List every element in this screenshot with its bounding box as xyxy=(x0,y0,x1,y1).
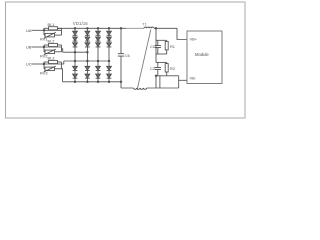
wire col4 xyxy=(108,70,110,74)
node top bus col1 xyxy=(74,27,76,29)
wire C6 rail upper xyxy=(120,28,122,53)
wire col3 xyxy=(97,35,99,37)
wire col2 to bottom bus xyxy=(86,78,88,82)
wire RV2 out xyxy=(55,51,62,53)
svg-text:VD1/16: VD1/16 xyxy=(73,21,89,26)
node bottom col2 xyxy=(86,81,88,83)
wire C varistor to bottom bus xyxy=(62,69,63,82)
transformer T1 secondary winding xyxy=(134,88,147,89)
wire C1 branch top xyxy=(157,40,159,45)
diode VD col3 upper 3 xyxy=(96,43,101,47)
diode VD col3 upper 1 xyxy=(96,31,101,35)
node top bus C6 tap xyxy=(120,27,122,29)
wire B upper branch out xyxy=(57,44,61,46)
wire C6 rail lower xyxy=(120,56,122,88)
wire RV3 out xyxy=(55,68,62,70)
diode VD col4 upper 1 xyxy=(107,31,112,35)
wire col4 xyxy=(108,41,110,43)
wire A split vertical xyxy=(43,28,45,35)
diode VD col4 upper 2 xyxy=(107,37,112,41)
wire module return riser xyxy=(178,76,180,88)
transformer T1 primary winding xyxy=(144,27,154,28)
wire C split vertical xyxy=(43,62,45,69)
wire module Vminus entry xyxy=(179,79,187,81)
varistor RV3 arrow xyxy=(44,66,56,72)
wire A upper branch out xyxy=(57,27,61,29)
fuse BL3 xyxy=(49,60,58,63)
varistor RV2 xyxy=(45,50,55,54)
svg-text:UB: UB xyxy=(26,45,32,50)
svg-text:VB+: VB+ xyxy=(190,37,198,42)
node L2 col4 xyxy=(108,60,110,62)
diode VD col4 upper 3 xyxy=(107,43,112,47)
wire col1 to bottom bus xyxy=(74,78,76,82)
varistor RV1 xyxy=(45,33,55,37)
node top bus col4 xyxy=(108,27,110,29)
svg-text:R2: R2 xyxy=(170,66,175,71)
wire col1 xyxy=(74,70,76,74)
wire bottom connector to riser xyxy=(167,75,179,77)
diode VD col2 lower 2 xyxy=(85,74,90,78)
wire C upper branch xyxy=(44,61,49,63)
transformer T1 core diagonal xyxy=(137,30,151,90)
wire B drop to bus L1 xyxy=(62,49,63,52)
wire C rejoin vertical xyxy=(61,62,63,69)
wire snubber rail upper xyxy=(155,28,157,40)
wire col4 upper lead xyxy=(108,28,110,31)
wire col4 to bottom bus xyxy=(108,78,110,82)
diode VD col2 upper 2 xyxy=(85,37,90,41)
wire snubber rail middle xyxy=(155,40,157,62)
varistor RV3 wire xyxy=(44,68,45,70)
wire col2 upper lead xyxy=(86,28,88,31)
wire A rejoin vertical xyxy=(61,28,63,35)
wire col1 xyxy=(74,35,76,37)
svg-text:C2: C2 xyxy=(150,66,155,71)
node C junction xyxy=(43,63,45,65)
diode VD col2 lower 1 xyxy=(85,66,90,70)
node L2 col3 xyxy=(97,60,99,62)
wire UB input xyxy=(32,46,45,48)
module box xyxy=(187,31,222,84)
wire snubber rail to bottom xyxy=(155,76,157,88)
diode VD col1 upper 3 xyxy=(73,43,78,47)
svg-text:RV3: RV3 xyxy=(40,70,48,75)
capacitor C6 xyxy=(118,54,124,56)
varistor RV2 arrow xyxy=(44,49,56,55)
wire A main xyxy=(44,29,62,31)
wire snubber2 bottom connector xyxy=(156,75,167,77)
diode column 3 xyxy=(96,27,101,83)
diode column 2 xyxy=(85,27,90,83)
wire col1 upper lead xyxy=(74,28,76,31)
diode VD col3 lower 2 xyxy=(96,74,101,78)
wire UA input xyxy=(32,29,45,31)
wire bottom rail xyxy=(121,87,179,89)
wire C2 branch to bottom rail xyxy=(159,76,161,88)
diode column 1 xyxy=(73,27,78,83)
capacitor C1 xyxy=(155,46,161,48)
wire col1 to mid buses xyxy=(74,47,76,66)
resistor R2 xyxy=(165,64,168,73)
wire C2 branch top xyxy=(157,62,159,67)
diode VD col1 upper 2 xyxy=(73,37,78,41)
svg-text:BL2: BL2 xyxy=(48,39,55,44)
wire B rejoin vertical xyxy=(61,45,63,52)
node top bus col3 xyxy=(97,27,99,29)
node L1 col2 xyxy=(86,51,88,53)
capacitor C2 xyxy=(155,68,161,70)
diode VD col1 upper 1 xyxy=(73,31,78,35)
wire phase bus L1 xyxy=(63,51,88,53)
diode VD col2 upper 3 xyxy=(85,43,90,47)
wire R1 top xyxy=(166,40,168,54)
wire col3 xyxy=(97,41,99,43)
wire snubber1 top connector xyxy=(156,39,167,41)
svg-text:C6: C6 xyxy=(125,54,130,58)
node bottom bus C6 xyxy=(120,81,122,83)
fuse BL2 xyxy=(49,43,58,46)
diode VD col4 lower 1 xyxy=(107,66,112,70)
wire C rise to bus L2 xyxy=(62,61,64,64)
wire col3 upper lead xyxy=(97,28,99,31)
wire col2 xyxy=(86,35,88,37)
border frame xyxy=(6,2,246,118)
wire col3 to bottom bus xyxy=(97,78,99,82)
svg-text:BL3: BL3 xyxy=(48,56,55,61)
node L1 col1 xyxy=(74,51,76,53)
wire snubber1 bottom connector xyxy=(156,53,167,55)
diode VD col1 lower 2 xyxy=(73,74,78,78)
diode VD col3 upper 2 xyxy=(96,37,101,41)
wire B main xyxy=(44,46,62,48)
node L2 col1 xyxy=(74,60,76,62)
diode VD col1 lower 1 xyxy=(73,66,78,70)
svg-text:Module: Module xyxy=(195,52,209,57)
svg-text:C1: C1 xyxy=(150,44,155,49)
wire C main xyxy=(44,63,62,65)
wire top bus drop to module xyxy=(177,28,187,39)
wire col4 xyxy=(108,35,110,37)
wire col1 xyxy=(74,41,76,43)
wire B upper branch xyxy=(44,44,49,46)
diode VD col2 upper 1 xyxy=(85,31,90,35)
wire col2 xyxy=(86,41,88,43)
node bottom col1 xyxy=(74,81,76,83)
wire snubber2 top connector xyxy=(156,61,167,63)
wire R2 leads xyxy=(166,62,168,75)
varistor RV1 wire down xyxy=(44,34,45,36)
wire top bus faded segment xyxy=(126,27,144,29)
wire C2 branch bottom xyxy=(157,70,159,76)
resistor R1 xyxy=(165,41,168,50)
wire C upper branch out xyxy=(57,61,61,63)
wire col4 to mid buses xyxy=(108,47,110,66)
wire B split vertical xyxy=(43,45,45,52)
wire top bus xyxy=(58,27,177,29)
varistor RV3 xyxy=(45,67,55,71)
node bottom col3 xyxy=(97,81,99,83)
node B junction xyxy=(43,46,45,48)
svg-text:UA: UA xyxy=(26,28,32,33)
svg-text:RV2: RV2 xyxy=(40,53,48,58)
diode VD col4 lower 2 xyxy=(107,74,112,78)
fuse BL1 xyxy=(49,27,58,30)
node A junction xyxy=(43,29,45,31)
diode VD col3 lower 1 xyxy=(96,66,101,70)
svg-text:T1: T1 xyxy=(142,21,147,26)
node L2 col2 xyxy=(86,60,88,62)
wire bottom bus xyxy=(63,81,122,83)
wire col3 xyxy=(97,70,99,74)
varistor RV1 arrow xyxy=(44,32,56,38)
wire col2 to mid buses xyxy=(86,47,88,66)
wire col2 xyxy=(86,70,88,74)
node snubber bottom xyxy=(155,75,157,77)
wire UC input xyxy=(32,63,45,65)
svg-text:BL1: BL1 xyxy=(48,22,55,27)
wire RV1 out xyxy=(55,34,62,36)
varistor RV2 wire xyxy=(44,51,45,53)
wire C1 branch bottom xyxy=(157,48,159,54)
wire phase bus L2 xyxy=(64,60,109,62)
node bottom col4 xyxy=(108,81,110,83)
wire A upper branch xyxy=(44,27,49,29)
svg-text:RV1: RV1 xyxy=(40,37,48,42)
svg-text:UC: UC xyxy=(26,62,32,67)
wire col3 to mid buses xyxy=(97,47,99,66)
node top bus col2 xyxy=(86,27,88,29)
svg-text:R1: R1 xyxy=(170,44,175,49)
diode column 4 xyxy=(107,27,112,83)
svg-text:VB-: VB- xyxy=(190,76,197,81)
node snubber tap xyxy=(155,27,157,29)
